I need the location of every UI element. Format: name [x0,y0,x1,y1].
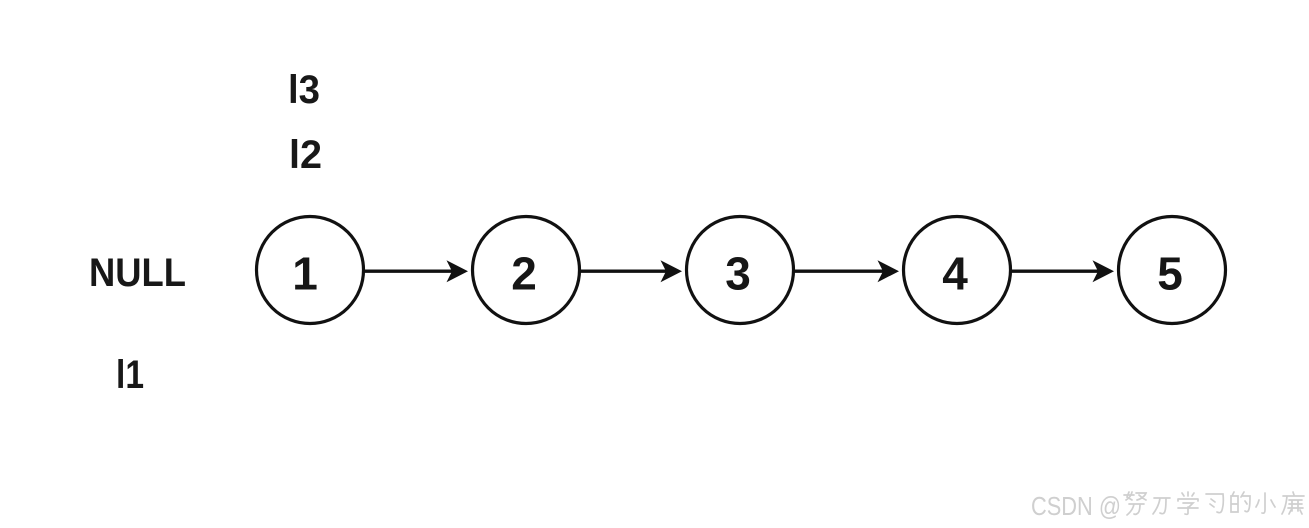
node 1 circle [257,217,364,324]
arrow 1-2 head [447,260,469,282]
watermark glyphs (hand-drawn CJK strokes) [1124,492,1304,515]
arrow 3-4 head [878,260,900,282]
svg-text:l1: l1 [116,353,144,397]
svg-text:2: 2 [511,248,537,300]
svg-text:CSDN @: CSDN @ [1031,491,1121,521]
arrow 4-5 head [1093,260,1115,282]
glyph xue [1178,492,1198,514]
arrow 4-5 line [1011,270,1099,273]
svg-text:3: 3 [725,248,751,300]
svg-text:5: 5 [1157,248,1183,300]
glyph xiao [1256,493,1275,513]
glyph li [1153,498,1170,514]
svg-text:l3: l3 [288,68,320,112]
svg-text:1: 1 [292,248,318,300]
svg-text:4: 4 [942,248,968,300]
glyph xi [1206,494,1223,513]
arrow 1-2 line [364,270,453,273]
arrow 3-4 line [794,270,884,273]
arrow 2-3 line [580,270,667,273]
arrow 2-3 head [661,260,683,282]
node 5 circle [1119,217,1226,324]
node 3 circle [687,217,794,324]
node 4 circle [904,217,1011,324]
glyph lian [1282,492,1304,514]
svg-text:NULL: NULL [89,251,186,295]
glyph nu [1124,492,1146,515]
svg-text:l2: l2 [289,133,322,177]
glyph de [1231,492,1250,512]
node 2 circle [473,217,580,324]
